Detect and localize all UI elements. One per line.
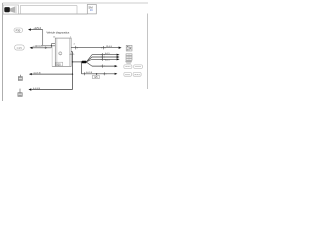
jog up [50,44,52,48]
svg-text:4-0.5 B: 4-0.5 B [86,72,93,74]
wire U [31,29,43,31]
fan row 3 [92,58,117,60]
arrow U [28,28,31,30]
fan row 1 [92,54,117,56]
row A wire [71,47,119,49]
svg-text:X30: X30 [56,63,61,66]
svg-text:4-0.5: 4-0.5 [70,54,76,56]
component B2 [126,54,132,60]
connector C15 (pill 1) [15,45,25,50]
ground branch [81,62,83,74]
fan wires [86,55,92,62]
svg-text:+12V-0: +12V-0 [33,27,41,30]
border right [146,14,148,90]
ground label box G5 [93,75,100,79]
splice feed [73,61,83,63]
header divider [19,6,21,15]
svg-text:C15: C15 [17,46,23,50]
main vertical [72,52,74,90]
pills row1 [124,65,132,69]
wire g2 [31,89,72,91]
corner wire from box [71,51,72,53]
pills row2 [124,73,132,77]
logo box [3,5,18,14]
connector F30 (pill U) [14,28,23,32]
border top [3,2,149,4]
ECU box U1 [55,38,71,66]
header bottom rule [3,13,88,15]
svg-text:4-0.5 B: 4-0.5 B [33,73,41,75]
circled ref [59,52,62,55]
svg-text:Vehicle diagnostics: Vehicle diagnostics [46,30,69,34]
svg-text:19-0.5: 19-0.5 [106,46,113,48]
splice S1 [82,61,87,63]
svg-text:F30: F30 [16,28,21,32]
arrow 1 [30,47,33,49]
border left [2,3,4,101]
arrow g1 [29,73,32,75]
inner bottom box [56,62,63,66]
wire pill1 [33,47,52,49]
arrow g2 [28,88,31,90]
ground G1 symbol [19,75,21,77]
svg-text:1C: 1C [90,8,93,12]
header stamp box [87,5,96,14]
wire g1 [32,73,73,75]
fan row 2 [92,56,117,58]
ground G2 symbol [19,89,21,93]
logo funnel [10,7,15,13]
component B1 [126,45,132,51]
logo blob [4,7,10,12]
svg-text:4-0.5 B: 4-0.5 B [33,88,41,90]
header field [20,5,77,7]
fan row 4 [92,65,115,67]
svg-text:+12V-0.5: +12V-0.5 [33,46,43,48]
B2 caption lines [125,60,131,62]
